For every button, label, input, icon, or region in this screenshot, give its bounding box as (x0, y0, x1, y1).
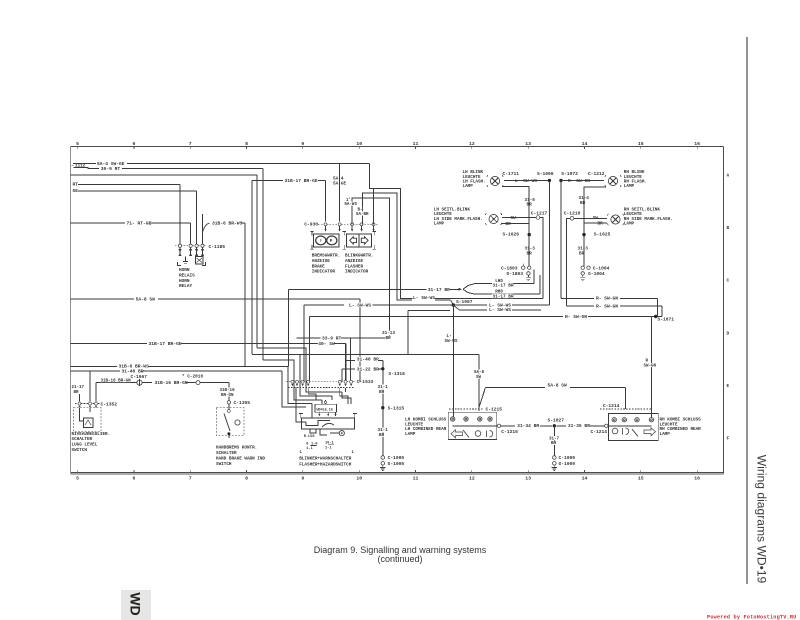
svg-text:5A-WS: 5A-WS (344, 203, 357, 207)
svg-text:SWITCH: SWITCH (216, 462, 232, 467)
svg-text:S-1071: S-1071 (658, 316, 675, 322)
svg-text:7: 7 (189, 476, 192, 482)
svg-text:A: A (727, 174, 730, 179)
svg-text:INDICATOR: INDICATOR (345, 270, 369, 275)
svg-text:49- SW: 49- SW (318, 341, 335, 347)
svg-text:33-9 RT: 33-9 RT (322, 336, 342, 342)
svg-text:L: L (300, 451, 303, 455)
svg-text:R.L50: R.L50 (304, 435, 315, 439)
svg-text:31B-17 BR-GE: 31B-17 BR-GE (149, 341, 182, 347)
svg-text:S-1072: S-1072 (561, 171, 578, 177)
svg-text:7: 7 (189, 141, 192, 147)
svg-text:C-1214: C-1214 (591, 429, 608, 435)
svg-text:Wiring diagrams WD•19: Wiring diagrams WD•19 (755, 455, 769, 584)
svg-text:ANZEIGE: ANZEIGE (312, 259, 330, 264)
svg-text:S-1067: S-1067 (456, 299, 473, 305)
svg-text:BLINKGWRTR.: BLINKGWRTR. (345, 254, 373, 259)
svg-text:L: L (352, 451, 355, 455)
svg-text:9: 9 (301, 141, 304, 147)
svg-text:RELAY: RELAY (179, 284, 193, 289)
svg-text:HORN: HORN (179, 279, 190, 284)
svg-text:C-1214: C-1214 (603, 403, 620, 409)
svg-text:R- SW-GN: R- SW-GN (565, 314, 587, 320)
svg-text:BR: BR (598, 222, 604, 227)
svg-text:5A-4 SW-GE: 5A-4 SW-GE (97, 161, 125, 167)
svg-text:BLINKER+WARNSCHALTER: BLINKER+WARNSCHALTER (299, 457, 352, 462)
svg-text:S-1626: S-1626 (503, 231, 520, 237)
svg-text:C-1210: C-1210 (564, 210, 581, 216)
svg-text:Powered by FotoHostingTV.RU: Powered by FotoHostingTV.RU (707, 615, 796, 620)
svg-text:5A-8 SW: 5A-8 SW (548, 383, 568, 389)
svg-text:WD4L5.16: WD4L5.16 (317, 408, 333, 412)
svg-text:C-930: C-930 (304, 221, 318, 227)
svg-text:G-1005: G-1005 (388, 461, 405, 467)
svg-text:WD: WD (127, 592, 143, 615)
svg-text:31-40 BP: 31-40 BP (357, 357, 379, 363)
svg-text:HANDBREMS KONTR.: HANDBREMS KONTR. (216, 445, 257, 450)
svg-text:BR: BR (379, 390, 385, 395)
svg-text:0: 0 (306, 442, 308, 446)
svg-text:C-1711: C-1711 (503, 171, 520, 177)
svg-text:(continued): (continued) (377, 554, 422, 564)
svg-text:16: 16 (694, 476, 700, 482)
svg-text:RELAIS: RELAIS (179, 274, 195, 279)
svg-text:G-1803: G-1803 (507, 271, 524, 277)
svg-text:R- SW-GN: R- SW-GN (596, 304, 618, 310)
svg-text:BR-GN: BR-GN (221, 394, 234, 398)
svg-text:BR: BR (527, 251, 533, 256)
svg-text:8: 8 (245, 141, 248, 147)
svg-text:31-17 BR: 31-17 BR (493, 294, 514, 299)
svg-text:GE: GE (73, 188, 79, 194)
svg-text:16: 16 (694, 141, 700, 147)
svg-text:B: B (727, 226, 730, 231)
svg-text:E: E (727, 384, 730, 389)
svg-text:BR: BR (580, 201, 586, 206)
svg-text:LAMP: LAMP (660, 432, 671, 437)
svg-text:31-17 BR: 31-17 BR (428, 287, 450, 293)
svg-text:S-1316: S-1316 (388, 371, 405, 377)
svg-text:BR: BR (379, 433, 385, 438)
svg-text:HAND BRAKE WARN IND: HAND BRAKE WARN IND (216, 457, 265, 462)
svg-text:30-9 RT: 30-9 RT (101, 166, 121, 172)
svg-text:6: 6 (132, 476, 135, 482)
svg-text:LAMP: LAMP (463, 184, 474, 189)
svg-text:S-1066: S-1066 (537, 171, 554, 177)
svg-text:C-1005: C-1005 (388, 455, 405, 461)
svg-text:* C-2010: * C-2010 (182, 375, 203, 380)
svg-text:BR: BR (551, 442, 557, 446)
svg-text:SCHALTER: SCHALTER (72, 437, 93, 442)
svg-text:31-40 BR: 31-40 BR (122, 368, 144, 374)
svg-text:31-35 BR: 31-35 BR (568, 423, 590, 429)
svg-text:C-1967: C-1967 (131, 374, 148, 380)
svg-text:21-17: 21-17 (72, 386, 85, 390)
svg-text:31-17 BR: 31-17 BR (493, 284, 514, 289)
svg-text:NIVEAUREGULIER.: NIVEAUREGULIER. (72, 432, 111, 437)
svg-text:SW: SW (476, 376, 482, 380)
svg-text:31-22 BR: 31-22 BR (357, 366, 379, 372)
svg-text:BR: BR (386, 336, 392, 341)
svg-text:F: F (727, 437, 730, 442)
svg-text:BR: BR (527, 203, 533, 208)
svg-text:12: 12 (469, 141, 475, 147)
svg-text:5: 5 (76, 476, 79, 482)
svg-text:LAMP: LAMP (624, 184, 635, 189)
svg-text:5: 5 (76, 141, 79, 147)
svg-text:10: 10 (356, 476, 362, 482)
svg-text:RT: RT (73, 182, 79, 188)
svg-text:1-L: 1-L (306, 447, 312, 451)
svg-text:C-1004: C-1004 (593, 265, 610, 271)
svg-text:SWITCH: SWITCH (72, 448, 88, 453)
svg-text:31-34 BR: 31-34 BR (517, 423, 539, 429)
svg-text:BR: BR (579, 251, 585, 256)
svg-text:L- SW-WS: L- SW-WS (489, 307, 511, 313)
svg-text:71- RT-GE: 71- RT-GE (127, 221, 152, 227)
svg-text:G-1004: G-1004 (588, 271, 605, 277)
svg-text:31B-16 BR-GN: 31B-16 BR-GN (155, 380, 188, 386)
svg-text:SCHALTER: SCHALTER (216, 451, 237, 456)
svg-text:1-1: 1-1 (325, 446, 331, 450)
svg-text:R- SW-GN: R- SW-GN (596, 296, 618, 302)
svg-text:SW-GN: SW-GN (644, 364, 657, 368)
svg-text:G-1009: G-1009 (559, 461, 576, 467)
svg-text:C-1215: C-1215 (501, 429, 518, 435)
svg-text:L- SW-WS: L- SW-WS (413, 295, 435, 301)
svg-text:S-1625: S-1625 (594, 231, 611, 237)
svg-text:D: D (727, 331, 730, 336)
svg-text:SW: SW (511, 216, 517, 221)
svg-text:C-1212: C-1212 (588, 171, 605, 177)
svg-text:15: 15 (638, 476, 644, 482)
svg-text:BR: BR (74, 391, 80, 395)
svg-text:13: 13 (525, 141, 531, 147)
svg-text:C-1215: C-1215 (486, 406, 503, 412)
svg-text:C-1009: C-1009 (559, 455, 576, 461)
svg-text:C-1217: C-1217 (531, 210, 548, 216)
svg-text:9: 9 (301, 476, 304, 482)
svg-text:BR: BR (506, 222, 512, 227)
svg-text:LUGG LEVEL: LUGG LEVEL (72, 443, 98, 448)
svg-text:L- SW-WS: L- SW-WS (349, 302, 371, 308)
svg-text:BRAKE: BRAKE (312, 264, 325, 269)
svg-text:INDICATOR: INDICATOR (312, 270, 336, 275)
svg-text:C-1533: C-1533 (357, 379, 374, 385)
svg-text:10: 10 (356, 141, 362, 147)
svg-text:5A-8 SW: 5A-8 SW (136, 296, 156, 302)
svg-text:HORN: HORN (179, 268, 190, 273)
svg-text:LAMP: LAMP (434, 221, 445, 226)
svg-text:31B-6 BR-WS: 31B-6 BR-WS (212, 221, 243, 227)
svg-text:S-1027: S-1027 (548, 417, 565, 423)
svg-text:SW-WS: SW-WS (445, 339, 458, 344)
svg-text:31B-17 BR-GE: 31B-17 BR-GE (285, 178, 318, 184)
svg-text:ANZEIGE: ANZEIGE (345, 259, 363, 264)
svg-text:31B-16 BR-GN: 31B-16 BR-GN (101, 379, 132, 383)
svg-text:C-1355: C-1355 (234, 400, 251, 406)
svg-text:11: 11 (413, 141, 419, 147)
svg-text:C: C (727, 279, 730, 284)
svg-text:C-1352: C-1352 (101, 401, 118, 407)
svg-text:FLASHER: FLASHER (345, 264, 363, 269)
svg-text:!: ! (320, 239, 323, 244)
svg-text:11: 11 (413, 476, 419, 482)
svg-text:C-1185: C-1185 (209, 244, 226, 250)
svg-text:15: 15 (638, 141, 644, 147)
svg-text:C-1803: C-1803 (501, 265, 518, 271)
svg-text:BREMSGWRTR.: BREMSGWRTR. (312, 254, 340, 259)
svg-text:FLASHER+HAZARDSWITCH: FLASHER+HAZARDSWITCH (299, 463, 352, 468)
svg-text:P: P (330, 240, 333, 244)
svg-text:S-1315: S-1315 (388, 405, 405, 411)
svg-text:8: 8 (245, 476, 248, 482)
svg-text:13: 13 (525, 476, 531, 482)
svg-text:LAMP: LAMP (624, 221, 635, 226)
svg-text:14: 14 (582, 141, 588, 147)
svg-text:LAMP: LAMP (405, 432, 416, 437)
svg-text:6: 6 (132, 141, 135, 147)
svg-text:5A-BR: 5A-BR (356, 213, 369, 217)
svg-text:12: 12 (469, 476, 475, 482)
svg-text:14: 14 (582, 476, 588, 482)
